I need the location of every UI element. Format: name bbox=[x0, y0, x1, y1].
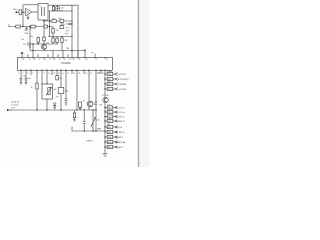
pot enclosure bbox=[42, 84, 53, 99]
ladder G3 row 4 bbox=[104, 140, 126, 144]
svg-text:47µ: 47µ bbox=[23, 76, 26, 78]
transistor Q3 on bus bbox=[103, 97, 108, 102]
ladder G3 row 1 bbox=[104, 124, 123, 129]
node 85,50.5 bbox=[84, 50, 85, 51]
wire V+ bus right bbox=[77, 5, 79, 57]
svg-text:5: 5 bbox=[32, 73, 33, 75]
capacitor C7 + ground x66 bbox=[65, 99, 68, 106]
resistor R8 bbox=[60, 20, 64, 23]
wire T1 bottom to rail bbox=[43, 20, 45, 21]
svg-text:BLANK 12: BLANK 12 bbox=[116, 120, 126, 123]
svg-text:10n: 10n bbox=[28, 78, 31, 80]
pin stubs bottom bbox=[21, 70, 101, 100]
svg-text:band sel: band sel bbox=[12, 102, 20, 104]
node 30,44 bbox=[29, 43, 30, 44]
svg-text:H DRIVE: H DRIVE bbox=[118, 84, 127, 86]
wire J1 to R1 bbox=[16, 11, 19, 13]
page margin tint bbox=[139, 0, 150, 167]
svg-text:220: 220 bbox=[58, 18, 61, 20]
svg-text:8k2: 8k2 bbox=[56, 30, 59, 32]
svg-text:B8: B8 bbox=[100, 105, 102, 107]
svg-text:R OUT crt: R OUT crt bbox=[116, 106, 125, 109]
svg-text:15: 15 bbox=[58, 73, 60, 75]
resistor R3 bbox=[16, 25, 20, 28]
svg-text:100µ: 100µ bbox=[65, 91, 69, 93]
node x23 y26.5 bbox=[22, 26, 23, 27]
svg-text:R30: R30 bbox=[98, 73, 101, 75]
resistor R5 bbox=[44, 25, 47, 28]
svg-text:reg: reg bbox=[61, 10, 64, 12]
svg-text:IDENT 9: IDENT 9 bbox=[116, 137, 125, 139]
wire rail y50.5 bbox=[30, 50, 85, 52]
transistor Q1 bbox=[42, 44, 47, 49]
svg-text:38: 38 bbox=[34, 59, 36, 61]
resistor R15 + ground below rail bbox=[74, 110, 76, 113]
trimmer RV1 bbox=[48, 88, 50, 95]
resistor R4 bbox=[31, 25, 35, 28]
svg-text:A 7-8 (16:9): A 7-8 (16:9) bbox=[118, 78, 129, 81]
ladder G2 row 2 bbox=[104, 110, 125, 114]
svg-text:9: 9 bbox=[43, 73, 44, 75]
svg-text:1k: 1k bbox=[31, 87, 33, 89]
wire top rail right bbox=[48, 4, 78, 6]
svg-text:17: 17 bbox=[62, 73, 64, 75]
node 33,44 + label bbox=[32, 43, 33, 44]
resistor R19 bbox=[61, 37, 63, 51]
svg-text:22n: 22n bbox=[21, 39, 24, 41]
amplifier A1 triangle bbox=[26, 8, 32, 15]
IC U1 TDA8362 bbox=[18, 57, 113, 70]
svg-text:47k: 47k bbox=[46, 43, 49, 45]
diode D1 bbox=[57, 5, 59, 11]
svg-text:AV SW 10: AV SW 10 bbox=[116, 131, 126, 134]
svg-text:35: 35 bbox=[49, 59, 51, 61]
wire R1 to A1 bbox=[22, 11, 26, 13]
terminal arrow left bbox=[7, 109, 10, 111]
svg-text:+5V µP: +5V µP bbox=[116, 127, 123, 129]
ladder G2 row 3 bbox=[104, 115, 124, 119]
svg-text:10k: 10k bbox=[30, 36, 33, 38]
svg-text:32: 32 bbox=[64, 59, 66, 61]
svg-text:3: 3 bbox=[27, 73, 28, 75]
wire rail y44 bbox=[30, 43, 58, 45]
svg-text:MHz: MHz bbox=[94, 104, 98, 106]
svg-text:30: 30 bbox=[73, 59, 75, 61]
svg-text:23: 23 bbox=[78, 73, 80, 75]
svg-text:to tuner: to tuner bbox=[12, 104, 19, 107]
svg-text:AF in: AF in bbox=[14, 8, 18, 11]
wire IC top stubs bbox=[28, 44, 85, 57]
wire bus x23 bbox=[22, 5, 24, 27]
resistor R16 bbox=[52, 27, 54, 37]
rail y131 bbox=[72, 127, 105, 132]
svg-text:33: 33 bbox=[59, 59, 61, 61]
svg-text:28: 28 bbox=[86, 59, 88, 61]
branch arrow x73 y24 bbox=[66, 23, 72, 25]
svg-text:29: 29 bbox=[79, 59, 81, 61]
svg-text:180: 180 bbox=[66, 48, 69, 50]
svg-text:TDA8362: TDA8362 bbox=[61, 62, 71, 65]
svg-text:25: 25 bbox=[85, 73, 87, 75]
svg-text:26: 26 bbox=[106, 59, 108, 61]
wire A1 to T1 bbox=[32, 11, 38, 13]
ground at x26.5 bbox=[25, 27, 27, 31]
wire rail y36.5 bbox=[48, 36, 72, 38]
capacitor C5 small bbox=[56, 76, 59, 80]
resistor R17 bbox=[52, 37, 54, 45]
resistor R13 on x44 bbox=[43, 28, 45, 44]
crystal X1 bbox=[79, 102, 82, 107]
wire x77 to rail bbox=[76, 70, 78, 110]
svg-text:37: 37 bbox=[39, 59, 41, 61]
ladder G1 row 1: resistor bbox=[104, 70, 126, 76]
trimmer RV2 bbox=[91, 110, 96, 131]
resistor R9 hanging bbox=[61, 23, 63, 26]
capacitor C3 + ground bbox=[20, 78, 23, 84]
pin ticks inside bottom bbox=[21, 69, 105, 70]
svg-text:7: 7 bbox=[38, 73, 39, 75]
wire bus x30 bbox=[29, 27, 31, 51]
capacitor C6 on x61 bbox=[60, 70, 62, 110]
svg-text:B OUT crt: B OUT crt bbox=[116, 115, 125, 118]
rail nodes bbox=[36, 109, 37, 110]
wire top rail left bbox=[23, 4, 38, 6]
page edge line bbox=[138, 0, 140, 167]
resistor R18 bbox=[56, 37, 58, 45]
svg-text:4k7: 4k7 bbox=[54, 89, 57, 91]
node 50,21 bbox=[49, 20, 50, 21]
wire rail y21 bbox=[44, 20, 72, 22]
ladder G2 row 1 bbox=[104, 104, 125, 109]
ladder G3 row 3 bbox=[104, 135, 124, 139]
node 44,44 bbox=[43, 43, 44, 44]
svg-text:21: 21 bbox=[73, 73, 75, 75]
ladder G2 row 4 bbox=[104, 119, 125, 123]
svg-text:31: 31 bbox=[102, 73, 104, 75]
node 44,21 bbox=[43, 20, 44, 21]
wire stub x49.5 bbox=[49, 11, 51, 37]
input terminal J1 bbox=[15, 11, 17, 13]
svg-text:1: 1 bbox=[18, 73, 19, 75]
svg-text:COINC 7: COINC 7 bbox=[116, 147, 125, 149]
capacitor C8 bbox=[83, 110, 86, 131]
svg-text:27: 27 bbox=[90, 73, 92, 75]
wire x96 long bbox=[95, 70, 97, 131]
node x30 y26.5 bbox=[29, 26, 30, 27]
svg-text:36: 36 bbox=[44, 59, 46, 61]
ladder G3 row 2 bbox=[105, 130, 125, 134]
LED D2 + ground bbox=[53, 103, 56, 106]
wire vertical x72 bbox=[71, 5, 73, 50]
resistor R10 between rails bbox=[53, 5, 55, 11]
wire branch y26.5 bbox=[8, 26, 53, 28]
svg-text:22p: 22p bbox=[97, 120, 100, 122]
resistor R12 bbox=[37, 37, 39, 45]
resistor R14 on x37 bbox=[36, 70, 38, 110]
svg-text:S-CORR: S-CORR bbox=[118, 89, 126, 91]
node bus/rail bbox=[104, 130, 105, 131]
svg-text:31: 31 bbox=[69, 59, 71, 61]
svg-text:1k2: 1k2 bbox=[52, 18, 55, 20]
node 72,50.5 bbox=[71, 50, 72, 51]
resistor R7 bbox=[52, 20, 56, 23]
ground bottom bus bbox=[103, 153, 108, 157]
ladder G1 row 3: resistor bbox=[104, 81, 126, 86]
node bus x23 bbox=[22, 12, 23, 13]
svg-text:40: 40 bbox=[23, 59, 25, 61]
node 62,36.5 bbox=[61, 36, 62, 37]
right ladder bus bbox=[104, 70, 106, 152]
node 53,36.5 bbox=[52, 36, 53, 37]
pin ticks inside top bbox=[22, 57, 105, 58]
svg-text:27: 27 bbox=[96, 59, 98, 61]
ladder G1 row 2: resistor bbox=[104, 77, 128, 81]
transformer T1 box bbox=[38, 4, 48, 21]
wire stub x95 top bbox=[94, 54, 96, 58]
svg-text:SCL: SCL bbox=[25, 30, 29, 32]
svg-text:39: 39 bbox=[29, 59, 31, 61]
svg-text:19: 19 bbox=[67, 73, 69, 75]
wire stub x22 top cap bbox=[21, 53, 23, 58]
svg-text:+12V B1: +12V B1 bbox=[118, 74, 127, 76]
svg-text:47n: 47n bbox=[56, 97, 59, 99]
svg-text:470: 470 bbox=[23, 44, 26, 46]
node 33,50.5 bbox=[32, 50, 33, 51]
svg-text:34: 34 bbox=[54, 59, 56, 61]
transistor Q2 bbox=[87, 101, 93, 107]
node 30,47 bbox=[29, 46, 30, 47]
svg-text:2: 2 bbox=[22, 73, 23, 75]
svg-text:X1: X1 bbox=[83, 100, 85, 102]
ladder G3 row 5 bbox=[104, 145, 124, 149]
node 38,44 bbox=[38, 43, 39, 44]
ground under A1 bbox=[27, 15, 30, 20]
svg-text:PAGE 2: PAGE 2 bbox=[87, 140, 93, 143]
svg-text:11: 11 bbox=[48, 73, 50, 75]
wire rail y11 bbox=[48, 10, 72, 12]
wire x47 to rail bbox=[46, 99, 48, 110]
wire x44 down bbox=[43, 21, 45, 27]
svg-text:T1: T1 bbox=[39, 6, 41, 8]
svg-text:V7 8050: V7 8050 bbox=[102, 95, 109, 97]
rail y110 bbox=[10, 109, 96, 111]
capacitor C4 + ground bbox=[25, 78, 28, 84]
svg-text:2k2: 2k2 bbox=[65, 40, 68, 42]
svg-text:G OUT crt: G OUT crt bbox=[116, 111, 126, 114]
resistor R1 bbox=[19, 10, 22, 15]
svg-text:SANDCAS: SANDCAS bbox=[116, 141, 126, 144]
svg-text:13: 13 bbox=[53, 73, 55, 75]
ladder G1 row 4: resistor bbox=[104, 87, 126, 91]
